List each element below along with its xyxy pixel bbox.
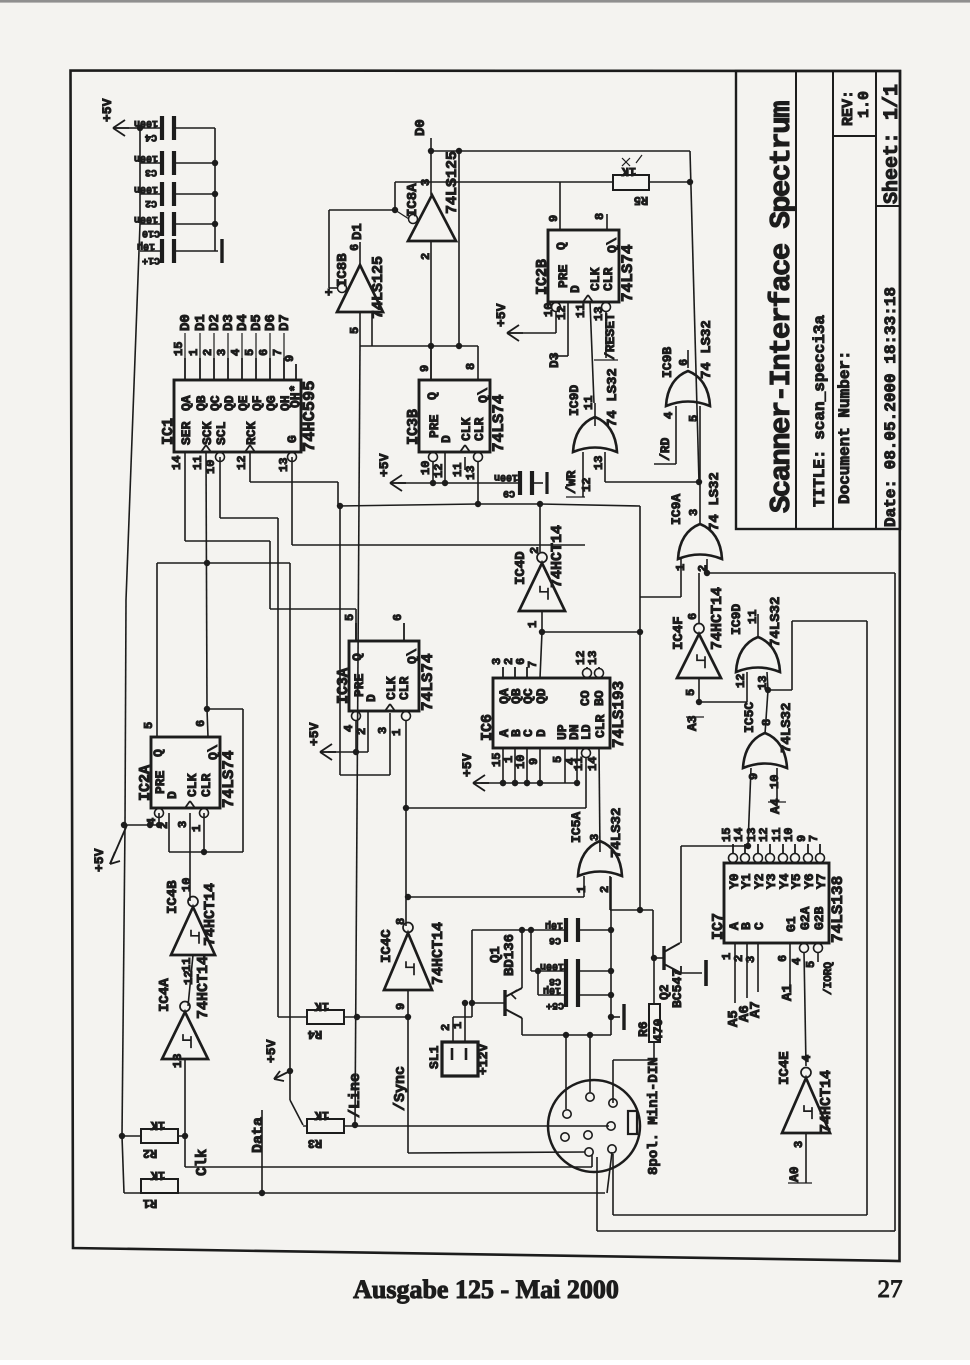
svg-text:D: D [568,285,583,293]
svg-text:12: 12 [580,478,594,492]
svg-text:IC9B: IC9B [660,347,675,378]
svg-text:74LS74: 74LS74 [619,244,637,302]
svg-text:SER: SER [179,421,194,445]
svg-text:74LS74: 74LS74 [220,750,238,808]
svg-text:IC4E: IC4E [777,1051,793,1085]
svg-text:BD136: BD136 [502,934,518,976]
svg-text:74HCT14: 74HCT14 [709,587,726,650]
svg-text:+12V: +12V [476,1044,491,1075]
svg-text:74HCT14: 74HCT14 [202,883,219,946]
svg-text:1.0: 1.0 [856,91,873,118]
svg-text:11: 11 [572,757,586,771]
svg-text:IC8A: IC8A [405,183,421,217]
svg-text:13: 13 [586,651,600,665]
svg-text:6: 6 [194,720,208,727]
svg-text:3: 3 [588,834,602,841]
svg-text:CLK: CLK [185,773,200,797]
svg-text:100n: 100n [134,152,158,163]
svg-text:IC3A: IC3A [335,668,352,704]
svg-text:PRE: PRE [352,673,367,697]
svg-text:3: 3 [376,727,390,734]
svg-text:+5V: +5V [264,1039,279,1063]
svg-text:R1: R1 [143,1196,157,1210]
svg-text:D0: D0 [413,119,429,136]
svg-text:/Line: /Line [347,1073,364,1118]
svg-text:G2B: G2B [812,906,827,930]
svg-text:74LS32: 74LS32 [768,597,784,647]
svg-text:74LS138: 74LS138 [829,876,847,943]
svg-text:5: 5 [684,689,698,696]
svg-text:Date: 08.05.2000 18:33:18: Date: 08.05.2000 18:33:18 [882,287,900,527]
svg-text:1K: 1K [150,1118,165,1132]
svg-text:IC7: IC7 [710,913,727,940]
svg-text:1: 1 [575,886,589,893]
svg-text:QB: QB [194,395,209,411]
svg-text:7: 7 [807,835,821,842]
svg-text:Clk: Clk [194,1149,211,1176]
svg-text:13: 13 [171,1054,185,1068]
svg-text:9: 9 [747,773,761,780]
svg-text:6: 6 [391,614,405,621]
svg-text:1K: 1K [150,1168,165,1182]
svg-text:100n: 100n [494,471,518,482]
svg-text:G: G [285,435,300,443]
svg-text:12: 12 [182,971,196,985]
svg-text:Ausgabe 125 - Mai 2000: Ausgabe 125 - Mai 2000 [353,1275,619,1304]
svg-text:1: 1 [190,825,204,832]
svg-text:D: D [439,435,454,443]
svg-text:CLR: CLR [472,417,487,441]
svg-text:1K: 1K [314,999,329,1013]
svg-text:13: 13 [464,466,478,480]
svg-text:6: 6 [776,955,790,962]
svg-text:74LS32: 74LS32 [609,808,625,858]
svg-text:1K: 1K [621,164,636,178]
svg-text:12: 12 [757,828,771,842]
svg-text:D3: D3 [547,352,562,368]
svg-text:+5V: +5V [92,848,107,872]
svg-text:11: 11 [574,304,588,318]
svg-text:3: 3 [687,509,701,516]
svg-text:A1: A1 [780,984,796,1001]
svg-text:8: 8 [464,363,478,370]
svg-text:1K: 1K [314,1108,329,1122]
svg-text:IC8B: IC8B [335,253,351,287]
svg-text:+5V: +5V [377,453,392,477]
svg-text:9: 9 [394,1003,408,1010]
svg-text:SCK: SCK [200,421,215,445]
svg-text:100n: 100n [134,183,158,194]
svg-text:10: 10 [514,755,528,769]
svg-text:6: 6 [686,613,700,620]
svg-text:10: 10 [782,828,796,842]
svg-text:C: C [752,922,767,930]
svg-text:CO: CO [578,690,593,706]
svg-text:D: D [165,791,180,799]
svg-text:CLR: CLR [601,267,616,291]
svg-text:+5V: +5V [100,98,115,122]
svg-text:R3: R3 [308,1136,322,1150]
svg-text:CLR: CLR [593,714,608,738]
svg-text:QD: QD [534,688,549,704]
svg-text:C1+: C1+ [142,254,160,265]
svg-text:+: + [322,288,337,296]
svg-text:IC4B: IC4B [165,880,181,914]
svg-text:100n: 100n [540,960,564,971]
svg-text:R5: R5 [634,193,648,207]
svg-text:Sheet: 1/1: Sheet: 1/1 [881,84,904,204]
svg-text:9: 9 [547,215,561,222]
svg-text:74HC595: 74HC595 [301,381,320,452]
svg-text:11: 11 [582,396,596,410]
svg-text:9: 9 [418,365,432,372]
svg-text:C2: C2 [145,197,157,208]
svg-text:8: 8 [593,213,607,220]
svg-text:BC547: BC547 [670,969,685,1008]
svg-text:6: 6 [677,359,691,366]
svg-text:/RD: /RD [658,437,673,461]
svg-text:13: 13 [592,456,606,470]
svg-text:IC4F: IC4F [671,616,687,650]
svg-text:RCK: RCK [244,421,259,445]
svg-text:15: 15 [172,342,186,356]
svg-text:3: 3 [792,1141,806,1148]
svg-text:3: 3 [176,821,190,828]
svg-text:74 LS32: 74 LS32 [605,368,621,427]
svg-text:6: 6 [257,349,271,356]
svg-text:Q\: Q\ [476,387,491,403]
svg-text:5: 5 [687,415,701,422]
svg-text:5: 5 [142,722,156,729]
svg-text:REV:: REV: [840,90,857,126]
svg-text:14: 14 [732,828,746,842]
svg-text:C3: C3 [145,166,157,177]
svg-text:D: D [364,694,379,702]
svg-text:74LS74: 74LS74 [490,394,508,452]
svg-text:A4: A4 [768,798,783,814]
svg-text:3: 3 [744,956,758,963]
svg-text:PRE: PRE [556,264,571,288]
svg-text:74HCT14: 74HCT14 [430,922,447,985]
svg-text:C10: C10 [142,227,160,238]
svg-text:470: 470 [651,1018,666,1042]
svg-text:+5V: +5V [307,722,322,746]
svg-text:100n: 100n [134,117,158,128]
svg-text:IC6: IC6 [479,714,496,741]
svg-text:Scanner-Interface Spectrum: Scanner-Interface Spectrum [765,101,798,513]
svg-text:SL1: SL1 [427,1045,442,1069]
svg-text:Q: Q [554,242,569,250]
svg-text:LD: LD [579,724,594,740]
svg-text:74LS125: 74LS125 [370,256,387,319]
svg-text:2: 2 [201,349,215,356]
svg-text:4: 4 [342,725,356,732]
svg-text:10µ: 10µ [137,240,155,251]
svg-text:74HCT14: 74HCT14 [195,956,212,1019]
svg-text:IC5A: IC5A [569,812,584,843]
svg-text:74HCT14: 74HCT14 [549,525,566,588]
svg-text:14: 14 [586,757,600,771]
svg-text:100n: 100n [134,213,158,224]
svg-text:R2: R2 [143,1146,157,1160]
svg-text:4: 4 [790,958,804,965]
svg-text:10µ: 10µ [543,984,561,995]
svg-text:3: 3 [215,349,229,356]
svg-text:Q: Q [425,392,440,400]
svg-text:QC: QC [208,395,223,411]
svg-text:1: 1 [187,349,201,356]
svg-text:D: D [534,729,549,737]
svg-text:IC2A: IC2A [137,765,154,801]
svg-text:IC4C: IC4C [379,929,395,963]
svg-text:1: 1 [526,621,540,628]
svg-text:A0: A0 [787,1166,802,1182]
svg-text:IC9D: IC9D [729,604,744,635]
svg-text:Q\: Q\ [206,744,221,760]
svg-text:IC9D: IC9D [567,385,582,416]
svg-text:G2A: G2A [798,906,813,930]
svg-text:Q\: Q\ [405,648,420,664]
svg-text:/IORQ: /IORQ [823,962,835,995]
svg-text:74HCT14: 74HCT14 [818,1070,835,1133]
svg-text:10: 10 [180,878,194,892]
svg-text:27: 27 [878,1276,903,1303]
svg-text:11: 11 [451,463,465,477]
svg-text:12: 12 [432,464,446,478]
svg-text:12: 12 [734,674,748,688]
svg-text:13: 13 [277,458,291,472]
svg-text:Document Number:: Document Number: [836,350,854,504]
svg-text:QF: QF [250,395,265,411]
svg-text:A7: A7 [748,1001,764,1018]
svg-text:+5V: +5V [494,303,509,327]
svg-text:IC5C: IC5C [742,702,757,733]
svg-text:74 LS32: 74 LS32 [699,320,715,379]
svg-text:8pol. Mini-DIN: 8pol. Mini-DIN [646,1057,662,1175]
svg-text:74LS74: 74LS74 [419,653,437,711]
svg-text:74LS193: 74LS193 [610,681,628,748]
svg-text:Q\: Q\ [605,237,620,253]
svg-text:QA: QA [179,395,194,411]
svg-text:10: 10 [768,775,782,789]
svg-text:C5+: C5+ [546,999,564,1010]
svg-text:C9: C9 [503,487,515,498]
svg-text:D1: D1 [350,223,366,240]
svg-text:74LS32: 74LS32 [779,703,795,753]
svg-text:10: 10 [419,461,433,475]
svg-text:IC1: IC1 [160,418,177,445]
svg-text:9: 9 [527,758,541,765]
svg-text:SCL: SCL [214,421,229,445]
svg-text:D0: D0 [178,314,194,331]
svg-text:12: 12 [235,456,249,470]
svg-text:Q: Q [151,749,166,757]
svg-text:QG: QG [264,395,279,411]
svg-text:R6: R6 [636,1021,651,1037]
svg-text:IC9A: IC9A [669,494,684,525]
svg-text:9: 9 [283,355,297,362]
svg-text:5: 5 [551,756,565,763]
svg-text:C6: C6 [549,934,561,945]
svg-text:4: 4 [800,1055,814,1062]
svg-text:CLR: CLR [397,676,412,700]
svg-text:/RESET: /RESET [603,313,618,360]
svg-text:1: 1 [451,1022,465,1029]
svg-text:7: 7 [526,661,540,668]
svg-text:/WR: /WR [564,470,579,494]
svg-text:14: 14 [170,456,184,470]
svg-text:G1: G1 [784,916,799,932]
svg-text:CLR: CLR [199,773,214,797]
svg-text:11: 11 [191,456,205,470]
svg-text:BO: BO [592,690,607,706]
svg-text:D7: D7 [277,314,293,331]
svg-text:10µ: 10µ [545,919,563,930]
svg-text:/Sync: /Sync [392,1066,409,1111]
svg-text:TITLE: scan_specci3a: TITLE: scan_specci3a [811,315,829,507]
svg-text:Data: Data [250,1117,267,1153]
svg-text:Y7: Y7 [814,873,829,889]
svg-text:PRE: PRE [427,414,442,438]
svg-text:8: 8 [394,918,408,925]
svg-text:C4: C4 [145,131,157,142]
svg-text:5: 5 [804,961,818,968]
svg-text:5: 5 [343,614,357,621]
svg-text:QD: QD [222,395,237,411]
svg-text:12: 12 [555,306,569,320]
svg-text:4: 4 [662,412,676,419]
svg-text:74 LS32: 74 LS32 [707,472,723,531]
svg-text:1: 1 [390,729,404,736]
svg-text:IC4A: IC4A [157,978,173,1012]
svg-text:+5V: +5V [460,753,475,777]
svg-text:8: 8 [760,719,774,726]
svg-text:10: 10 [542,303,556,317]
svg-text:4: 4 [229,349,243,356]
svg-text:PRE: PRE [153,770,168,794]
svg-text:5: 5 [243,349,257,356]
svg-text:IC2B: IC2B [534,259,551,295]
svg-text:QE: QE [236,395,251,411]
svg-text:IC3B: IC3B [405,409,422,445]
svg-text:IC4D: IC4D [513,551,529,585]
svg-text:R4: R4 [308,1027,322,1041]
